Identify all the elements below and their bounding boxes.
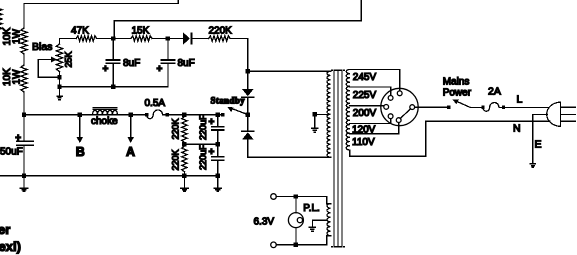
wire pot to gnd wire [59, 72, 61, 87]
wire 6.3V bottom [276, 244, 326, 246]
wire primary bottom [350, 150, 426, 156]
resistor 220K (upper vertical) [182, 115, 187, 144]
wire 220uF a bottom [217, 130, 219, 144]
selector pin out [410, 105, 415, 110]
wire wiper to pot bottom [38, 76, 59, 78]
svg-text:Mains: Mains [443, 77, 470, 88]
wire top-left exit vertical [177, 0, 179, 3]
wire 220uF b top [217, 144, 219, 157]
transformer 6.3V winding [327, 204, 331, 236]
wire tap 225V [350, 87, 391, 96]
svg-text:225V: 225V [353, 90, 377, 101]
wire cap a to gnd wire [112, 63, 114, 86]
transformer core [332, 70, 345, 246]
pilot lamp P.L. [288, 197, 303, 245]
wire rail top [23, 3, 25, 28]
svg-text:8uF: 8uF [178, 58, 195, 69]
wire D2 down corner [248, 140, 331, 158]
selector pin 245V [397, 91, 402, 96]
mains switch lever [453, 100, 471, 108]
capacitor 50uF [17, 141, 33, 145]
node lamp bottom [294, 243, 298, 247]
svg-text:47K: 47K [71, 26, 89, 37]
resistor 220K (top) [209, 36, 231, 41]
svg-text:+: + [15, 133, 21, 144]
wire tap 110V [350, 123, 399, 134]
node gnd 220uF [216, 174, 220, 178]
capacitor 220uF b [212, 157, 224, 160]
plug pin E [561, 113, 576, 115]
transformer center tap stub [315, 113, 328, 115]
pot wiper arrow [38, 56, 57, 62]
wire 6.3V center tap [312, 219, 326, 221]
selector pin 120V [388, 114, 393, 119]
wire E stub [533, 113, 548, 115]
wire top-right exit vertical [360, 0, 362, 21]
standby switch contact [221, 113, 225, 117]
resistor R 10K 1W upper [21, 28, 27, 54]
ground at 220K [181, 176, 188, 192]
capacitor 8uF b [161, 60, 174, 63]
wire ground bus [0, 175, 218, 177]
node B takeoff [78, 113, 82, 117]
svg-text:1W: 1W [12, 28, 23, 44]
resistor R 10K 1W lower [21, 65, 27, 92]
node A takeoff [129, 113, 133, 117]
terminal 6.3V top [271, 194, 277, 200]
wire divider mid link [184, 143, 217, 145]
plug pin L [561, 106, 576, 108]
node pot bottom [57, 75, 61, 79]
transformer HT secondary winding [327, 71, 331, 157]
wire bus right [167, 114, 222, 116]
node rail/bus junction [22, 113, 26, 117]
svg-text:E: E [535, 139, 542, 151]
wire 220uF b bottom [217, 160, 219, 176]
diode D1 [242, 89, 254, 97]
svg-text:L: L [517, 93, 523, 105]
ground at 50uF [20, 176, 27, 192]
svg-text:+: + [209, 147, 215, 158]
resistor 220K (lower vertical) [182, 144, 187, 176]
mains plug body [547, 102, 561, 126]
wire L [504, 106, 550, 108]
node standby junction [246, 112, 250, 116]
choke winding [93, 107, 118, 115]
selector pin 110V [396, 118, 401, 123]
ground center tap [312, 114, 318, 132]
svg-text:220uF: 220uF [198, 144, 208, 170]
wire rect node down [247, 71, 249, 89]
svg-text:8uF: 8uF [123, 58, 140, 69]
node rectifier out [246, 69, 250, 73]
wire tap 245V [350, 69, 400, 91]
svg-text:B: B [76, 145, 85, 159]
diode D2 [242, 131, 254, 139]
ground at 220uF [214, 176, 221, 192]
svg-text:220K: 220K [171, 118, 181, 139]
wire tap 120V [350, 119, 391, 124]
wire 220uF a top [217, 115, 219, 127]
node 15K/diode junction [166, 36, 170, 40]
mains switch contact [447, 105, 451, 109]
svg-text:P.L.: P.L. [303, 203, 320, 214]
svg-text:0.5A: 0.5A [145, 98, 166, 109]
terminal 6.3V bottom [271, 242, 277, 248]
svg-text:N: N [513, 122, 521, 134]
svg-text:er: er [0, 222, 10, 237]
wire D1 to standby node [247, 97, 249, 115]
svg-text:245V: 245V [353, 72, 377, 83]
svg-text:1W: 1W [12, 69, 23, 85]
arrow A [127, 115, 134, 143]
resistor 47K [76, 36, 96, 41]
wire rail to bus [23, 92, 25, 115]
wire N drop [425, 121, 427, 156]
selector pin 225V [388, 96, 393, 101]
resistor 15K [131, 36, 152, 41]
capacitor 8uF a [106, 60, 119, 63]
wire selector output [415, 106, 449, 108]
arrow B [76, 115, 83, 143]
wire switch to fuse [470, 106, 483, 108]
svg-text:25K: 25K [64, 51, 74, 67]
wire upper horizontal [114, 20, 361, 22]
wire bias ground rail [60, 63, 168, 86]
ground 6.3V center tap [309, 220, 315, 231]
ground bias [57, 87, 62, 100]
node gnd 220K [182, 174, 186, 178]
node 220uF mid [216, 142, 220, 146]
resistor (partial, cut at left edge) [0, 5, 2, 33]
node 220uF top [216, 113, 220, 117]
svg-text:50uF: 50uF [0, 147, 23, 158]
svg-text:200V: 200V [353, 108, 377, 119]
selector rotor [400, 109, 410, 119]
fuse 0.5A [145, 110, 169, 119]
wire 50uF to ground bus [23, 145, 25, 175]
wire 6.3V winding top lead [327, 197, 331, 204]
svg-text:6.3V: 6.3V [254, 216, 275, 227]
standby lever [227, 107, 248, 115]
svg-text:220K: 220K [171, 149, 181, 170]
voltage selector body [381, 88, 418, 125]
capacitor 220uF a [212, 127, 224, 130]
wire bias corner to 47K [60, 39, 77, 45]
transformer primary winding [346, 69, 350, 150]
svg-text:15K: 15K [132, 26, 150, 37]
selector pin 200V [384, 105, 389, 110]
wire rect node to winding top [248, 70, 331, 72]
node cap a junction [111, 84, 115, 88]
diode D3 [183, 32, 192, 44]
wire diode to 220K [192, 38, 208, 40]
wire node1 to 15K [113, 38, 131, 40]
wire bus left [24, 114, 93, 116]
svg-text:A: A [126, 145, 135, 159]
svg-text:Standby: Standby [211, 95, 246, 105]
node center tap [313, 112, 317, 116]
wire drop to 47K/15K node [113, 21, 115, 39]
svg-text:110V: 110V [352, 137, 375, 148]
wire 6.3V winding bottom lead [327, 236, 331, 245]
wire node2 to diode [168, 38, 183, 40]
potentiometer 25K [56, 44, 62, 72]
node gnd 50uF [22, 174, 26, 178]
svg-text:choke: choke [91, 116, 118, 127]
wire tap 200V [350, 105, 384, 107]
wire 47K to node1 [97, 38, 114, 40]
wire top horizontal to rail [24, 2, 178, 4]
wire bus choke span [93, 114, 147, 116]
wire N [426, 120, 550, 122]
wire wiper down [37, 59, 39, 77]
svg-text:220K: 220K [209, 26, 233, 37]
wire 6.3V top [276, 196, 326, 198]
node 47K/15K junction [111, 36, 115, 40]
svg-text:2A: 2A [488, 85, 501, 97]
svg-text:Bias: Bias [32, 41, 52, 53]
fuse 2A [481, 103, 505, 112]
wire 220K to corner down [230, 39, 248, 72]
wire 15K to node2 [152, 38, 168, 40]
wire node1 to cap 8uF a [112, 39, 114, 61]
svg-text:Flexi): Flexi) [0, 239, 21, 254]
svg-text:Power: Power [443, 87, 472, 98]
wire rail to 50uF [23, 115, 25, 142]
ground E [530, 114, 535, 167]
svg-text:+: + [209, 117, 215, 128]
node 220K top [182, 113, 186, 117]
svg-text:+: + [157, 64, 163, 75]
wire rail mid [23, 54, 25, 65]
svg-text:220uF: 220uF [198, 114, 208, 140]
wire node2 to cap 8uF b [167, 39, 169, 61]
node bias gnd junction [57, 84, 61, 88]
wire standby node to D2 [247, 115, 249, 132]
plug pin N [561, 120, 576, 122]
svg-text:+: + [103, 64, 109, 75]
node divider mid [182, 142, 186, 146]
node lamp top [294, 194, 298, 198]
